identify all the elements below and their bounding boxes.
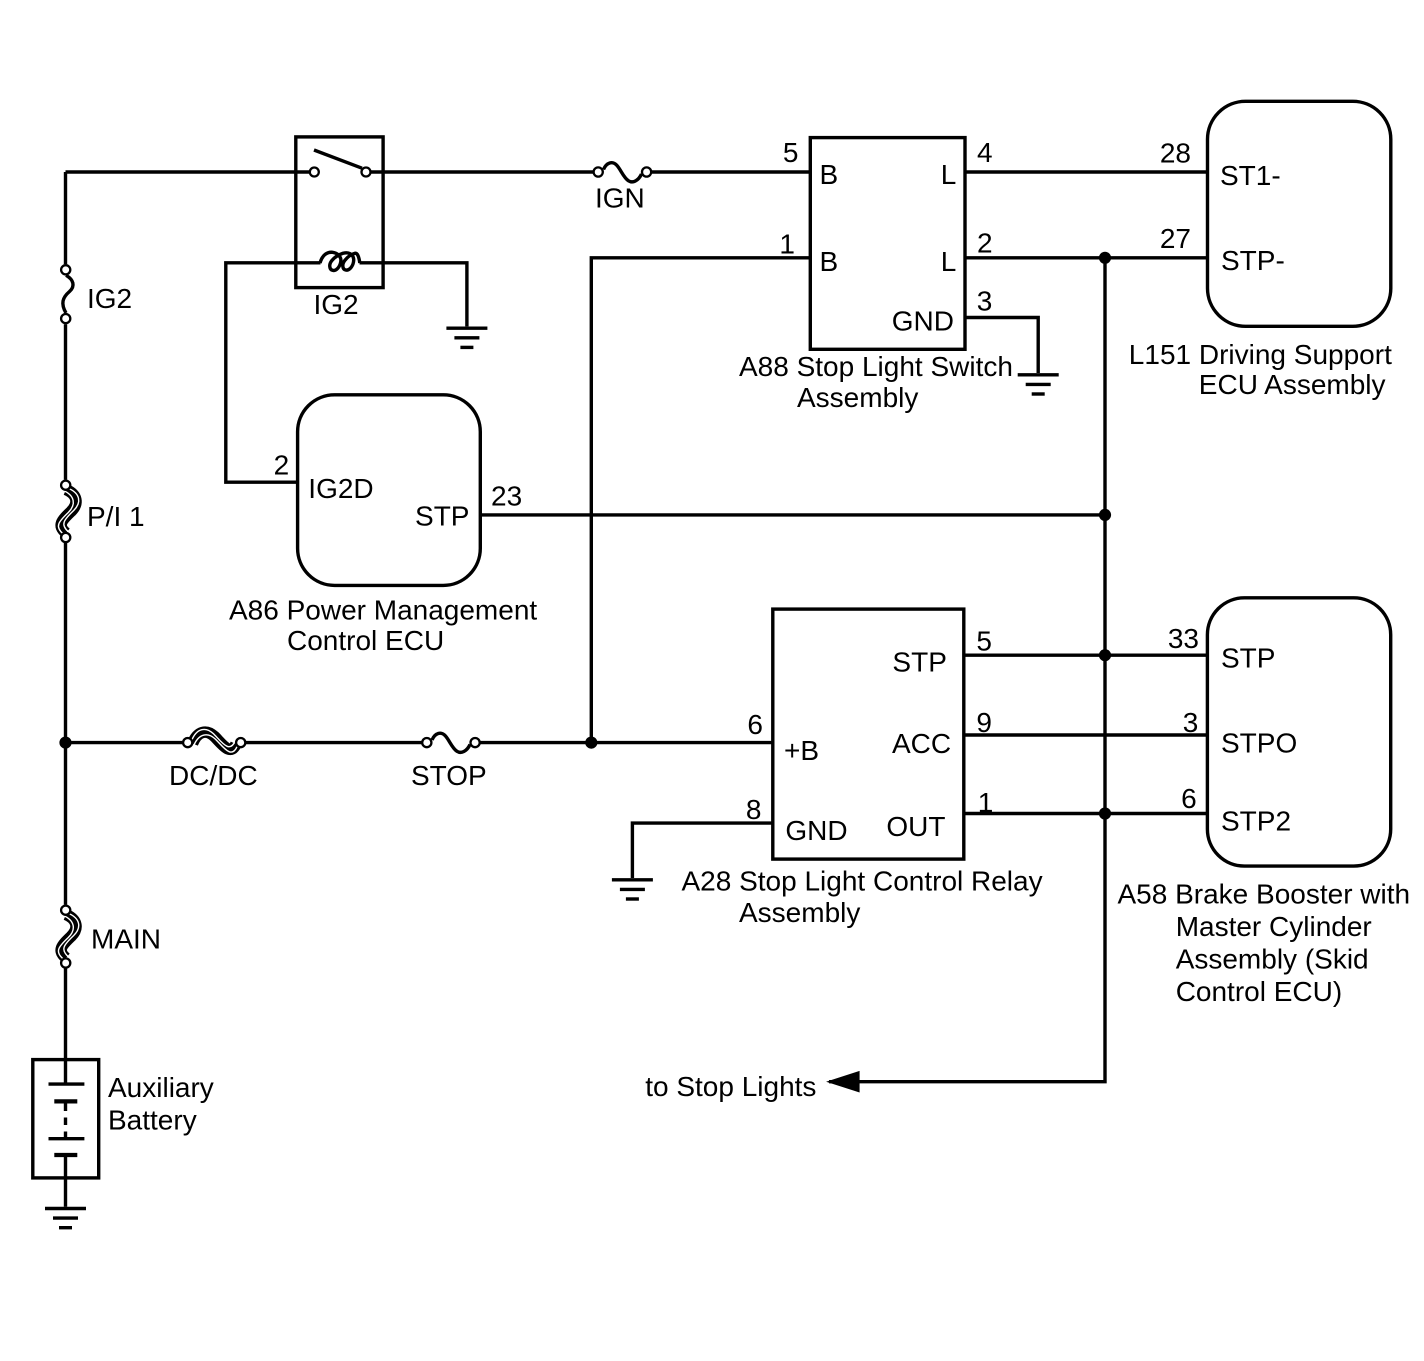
trunk vertical wire: [829, 258, 1105, 1082]
junction dot A86 STP: [1099, 509, 1111, 521]
wire left rail between MAIN and battery: [64, 969, 67, 1061]
svg-text:28: 28: [1160, 138, 1191, 169]
svg-text:6: 6: [1181, 783, 1197, 814]
A86 Power Management Control ECU box: [298, 395, 481, 586]
wire IGN fuse to A88 pin 5: [652, 170, 811, 173]
svg-text:DC/DC: DC/DC: [169, 760, 258, 791]
A28 Stop Light Control Relay box: [773, 609, 964, 859]
svg-text:ST1-: ST1-: [1220, 160, 1281, 191]
battery top lead: [64, 1060, 67, 1083]
svg-text:+B: +B: [784, 735, 819, 766]
wire top bus from relay switch to IGN fuse: [371, 170, 594, 173]
arrow to Stop Lights: [826, 1071, 860, 1093]
relay IG2 switch contact left: [310, 168, 319, 177]
battery bottom lead: [64, 1156, 67, 1207]
svg-text:27: 27: [1160, 223, 1191, 254]
relay IG2 coil: [320, 252, 360, 270]
svg-text:P/I 1: P/I 1: [87, 501, 145, 532]
svg-text:ECU Assembly: ECU Assembly: [1199, 369, 1386, 400]
ground (A28 GND): [612, 880, 653, 899]
svg-text:2: 2: [977, 227, 993, 258]
battery plate long 2: [49, 1137, 85, 1140]
svg-text:B: B: [820, 159, 839, 190]
battery plate long 1: [49, 1082, 85, 1085]
svg-text:L151 Driving Support: L151 Driving Support: [1129, 339, 1392, 370]
battery plate short 1: [54, 1099, 77, 1103]
fusible link MAIN: [58, 906, 78, 968]
svg-text:9: 9: [976, 707, 992, 738]
svg-text:4: 4: [977, 137, 993, 168]
junction dot A28 OUT: [1099, 807, 1111, 819]
svg-text:33: 33: [1168, 623, 1199, 654]
svg-text:Auxiliary: Auxiliary: [108, 1072, 214, 1103]
battery plate short 2: [54, 1153, 77, 1157]
relay IG2 coil wire right to ground: [360, 263, 467, 327]
wire left rail top segment: [64, 172, 67, 264]
svg-text:23: 23: [491, 480, 522, 511]
svg-text:Assembly: Assembly: [797, 382, 918, 413]
fusible link DC/DC: [183, 729, 245, 752]
battery Auxiliary Battery box: [33, 1060, 99, 1178]
svg-text:STP: STP: [1221, 642, 1275, 673]
A88 Stop Light Switch box: [810, 138, 965, 350]
wire A86 STP to trunk: [480, 513, 1105, 516]
fusible link P/I 1: [58, 481, 78, 543]
svg-text:STP-: STP-: [1221, 245, 1285, 276]
wire top bus from left rail to relay switch: [66, 170, 311, 173]
svg-text:A86 Power Management: A86 Power Management: [229, 595, 537, 626]
svg-text:STP: STP: [892, 647, 946, 678]
svg-text:Control ECU): Control ECU): [1176, 976, 1342, 1007]
svg-text:STP: STP: [415, 501, 469, 532]
wire A28 GND to ground: [632, 823, 772, 878]
svg-text:Master Cylinder: Master Cylinder: [1176, 911, 1372, 942]
L151 Driving Support ECU box: [1208, 101, 1391, 326]
relay IG2 switch contact right: [362, 168, 371, 177]
wire A28 STP to A58 STP: [964, 654, 1208, 657]
svg-text:A58 Brake Booster with: A58 Brake Booster with: [1118, 878, 1411, 909]
ground (relay IG2 coil): [446, 328, 487, 347]
svg-text:5: 5: [976, 625, 992, 656]
svg-text:L: L: [941, 246, 957, 277]
wire left rail between P/I 1 and MAIN: [64, 543, 67, 905]
relay IG2 coil wire left: [226, 263, 321, 482]
svg-text:5: 5: [783, 137, 799, 168]
junction dot STP-: [1099, 252, 1111, 264]
svg-text:L: L: [941, 159, 957, 190]
svg-text:8: 8: [746, 794, 762, 825]
wire A88 pin 2 to L151 STP-: [965, 256, 1208, 259]
svg-text:IG2: IG2: [314, 289, 359, 320]
svg-text:Control ECU: Control ECU: [287, 625, 444, 656]
svg-text:A28 Stop Light Control Relay: A28 Stop Light Control Relay: [682, 866, 1043, 897]
svg-text:STOP: STOP: [411, 760, 487, 791]
svg-text:B: B: [820, 246, 839, 277]
svg-text:IGN: IGN: [595, 183, 645, 214]
svg-text:to Stop Lights: to Stop Lights: [645, 1071, 816, 1102]
wire left rail between IG2 fuse and P/I 1: [64, 324, 67, 480]
svg-text:GND: GND: [785, 815, 847, 846]
svg-text:Assembly (Skid: Assembly (Skid: [1176, 943, 1369, 974]
fuse IG2: [61, 265, 73, 323]
wire A88 pin 1 to vertical branch: [591, 258, 810, 743]
svg-text:2: 2: [274, 449, 290, 480]
wire A28 ACC to A58 STPO: [964, 733, 1208, 736]
wire A28 OUT to A58 STP2: [964, 812, 1208, 815]
svg-text:Battery: Battery: [108, 1105, 197, 1136]
svg-text:IG2: IG2: [87, 283, 132, 314]
wire A88 pin 4 to L151 ST1-: [965, 170, 1208, 173]
svg-text:Assembly: Assembly: [739, 897, 860, 928]
svg-text:1: 1: [779, 228, 795, 259]
junction dot bus branch: [585, 737, 597, 749]
svg-text:GND: GND: [892, 306, 954, 337]
svg-text:IG2D: IG2D: [308, 473, 373, 504]
main bus wire from battery rail to DC/DC: [66, 741, 183, 744]
relay IG2 box: [296, 137, 383, 288]
main bus wire DC/DC to STOP fuse: [246, 741, 422, 744]
svg-text:A88 Stop Light Switch: A88 Stop Light Switch: [739, 351, 1013, 382]
main bus wire STOP fuse to A28 +B: [480, 741, 773, 744]
svg-text:3: 3: [1183, 707, 1199, 738]
ground (battery): [45, 1209, 86, 1228]
battery dashed link: [64, 1104, 67, 1140]
svg-text:3: 3: [977, 286, 993, 317]
junction dot A28 STP: [1099, 649, 1111, 661]
svg-text:6: 6: [747, 709, 763, 740]
relay IG2 switch blade: [314, 150, 362, 168]
svg-text:MAIN: MAIN: [91, 924, 161, 955]
svg-text:STP2: STP2: [1221, 806, 1291, 837]
svg-text:OUT: OUT: [886, 811, 945, 842]
ground (A88 pin 3): [1018, 375, 1059, 394]
svg-text:STPO: STPO: [1221, 727, 1297, 758]
wire A88 pin 3 to ground: [965, 318, 1038, 374]
svg-text:ACC: ACC: [892, 728, 951, 759]
junction dot bus left: [59, 737, 71, 749]
A58 Brake Booster box: [1207, 598, 1390, 866]
fuse IGN: [594, 163, 652, 182]
fuse STOP: [422, 733, 480, 752]
